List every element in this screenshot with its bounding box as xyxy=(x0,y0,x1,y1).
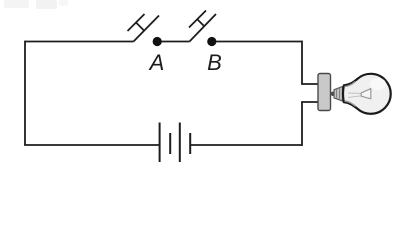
faint watermark blob 3 xyxy=(59,0,68,6)
battery BT1 plate short (right cell -) xyxy=(189,133,191,154)
lamp neck shading bottom xyxy=(345,101,356,106)
svg-text:A: A xyxy=(148,50,165,75)
wire: lamp lower stub xyxy=(301,101,318,103)
wire: left vertical side xyxy=(24,41,26,145)
battery BT1 plate long (left cell +) xyxy=(159,123,161,163)
lamp glass highlight xyxy=(370,78,386,90)
lamp screw ridge 1 xyxy=(336,89,338,99)
node B contact dot xyxy=(207,37,216,46)
filament support wire upper xyxy=(348,92,361,94)
battery BT1 plate long (right cell +) xyxy=(179,123,181,163)
wire: bottom-right segment from battery to right corner xyxy=(190,144,302,146)
lamp glass envelope xyxy=(343,74,391,114)
faint watermark blob 2 xyxy=(36,0,57,9)
filament support wire lower xyxy=(348,96,361,98)
wire: right vertical upper (top wire down to lamp upper stub) xyxy=(301,41,303,84)
wire: top-left segment from left corner to switch A pivot xyxy=(25,41,134,43)
node A contact dot xyxy=(153,37,162,46)
lamp contact nub xyxy=(331,92,336,97)
lamp screw ridge 2 xyxy=(339,88,341,100)
faint watermark blob top-left xyxy=(4,0,29,8)
switch A (open knife switch) xyxy=(128,14,160,42)
lamp screw base xyxy=(334,87,343,101)
battery BT1 plate short (left cell -) xyxy=(169,133,171,154)
wire: bottom-left segment to battery xyxy=(24,144,159,146)
svg-text:B: B xyxy=(207,50,222,75)
wire: lamp upper stub xyxy=(301,83,318,85)
filament coil cone xyxy=(361,89,371,99)
wire: right vertical lower (bottom wire up to lamp lower stub) xyxy=(301,102,303,146)
lamp socket base xyxy=(318,74,331,111)
lamp neck shading top xyxy=(345,81,356,86)
wire: top segment from dot A to switch B pivot xyxy=(161,41,189,43)
switch B (open knife switch) xyxy=(189,11,216,42)
wire: top-right segment from dot B to right corner xyxy=(216,41,302,43)
